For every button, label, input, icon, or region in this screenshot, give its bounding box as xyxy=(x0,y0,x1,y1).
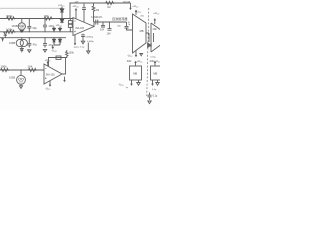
capacitor C8 xyxy=(101,22,105,27)
power pin -Ucc U1 xyxy=(74,35,76,45)
resistor R9 feedback box xyxy=(56,56,61,59)
junction dot feedback xyxy=(83,2,84,3)
capacitor C9 xyxy=(108,22,112,30)
wire B1 top xyxy=(135,62,137,66)
svg-text:MB: MB xyxy=(140,29,144,33)
diode D7 xyxy=(60,7,64,19)
dashed separator xyxy=(147,8,149,96)
lamp V2 double circle xyxy=(16,39,23,46)
diode D4 xyxy=(59,27,62,32)
svg-text:30p: 30p xyxy=(32,26,37,30)
capacitor C1 xyxy=(27,19,31,32)
wire B1 bottom arrow xyxy=(131,80,133,85)
input terminal lower left xyxy=(4,32,7,38)
svg-text:163B: 163B xyxy=(9,76,15,80)
wire B2 bottom arrow xyxy=(152,80,154,85)
power +Ucc U2 xyxy=(135,10,137,14)
resistor R5 feedback xyxy=(92,3,95,22)
input signs U3 xyxy=(45,68,47,79)
junction dot lower xyxy=(20,69,21,70)
svg-text:MB: MB xyxy=(153,71,157,75)
svg-text:163B: 163B xyxy=(12,24,18,28)
svg-text:MB: MB xyxy=(133,71,137,75)
resistor R4 box xyxy=(68,21,72,24)
svg-text:3.3MΩ/1%: 3.3MΩ/1% xyxy=(91,16,103,19)
wire top faint rail xyxy=(0,7,62,9)
resistor R8 10k xyxy=(28,68,37,71)
arrow right section xyxy=(154,19,156,24)
svg-text:163B: 163B xyxy=(9,41,15,45)
svg-text:1M: 1M xyxy=(107,6,110,9)
diode D8 right xyxy=(148,33,154,47)
svg-text:104: 104 xyxy=(107,33,112,36)
svg-text:自激振荡器: 自激振荡器 xyxy=(112,16,127,21)
power -Ucc U2 xyxy=(135,51,137,57)
svg-text:0.0082µ: 0.0082µ xyxy=(85,36,94,38)
svg-text:1M: 1M xyxy=(96,9,99,12)
capacitor C6 feedback xyxy=(82,3,86,22)
regulator box B2 xyxy=(151,66,162,80)
svg-text:0.1µ: 0.1µ xyxy=(153,95,158,98)
power +Ucc U3 xyxy=(47,62,49,66)
capacitor C12 chain xyxy=(87,43,90,54)
svg-text:100k: 100k xyxy=(6,27,13,31)
resistor R10 vertical xyxy=(66,50,69,58)
ground G3 xyxy=(81,41,84,44)
junction dots xyxy=(69,2,70,3)
diode D9 xyxy=(60,19,64,24)
power -Ucc U3 xyxy=(49,81,51,86)
lamp V1 circle xyxy=(18,23,25,30)
op-amp U3 xyxy=(44,64,62,84)
capacitor C7 series xyxy=(96,20,98,25)
svg-text:INA-105: INA-105 xyxy=(75,27,84,30)
wire lower rail xyxy=(0,69,44,71)
svg-text:100k: 100k xyxy=(0,64,7,68)
capacitor C3 xyxy=(43,19,47,32)
svg-text:INA-105: INA-105 xyxy=(46,73,55,76)
svg-text:10k: 10k xyxy=(28,64,33,68)
op-amp U1 xyxy=(73,18,94,36)
resistor R3 30k xyxy=(43,17,53,20)
svg-text:0.1µ: 0.1µ xyxy=(80,47,85,49)
diode D1 xyxy=(20,30,23,32)
svg-text:104: 104 xyxy=(100,29,105,32)
resistor R2 100k xyxy=(6,30,16,33)
capacitor C5 bypass xyxy=(81,34,85,41)
diode D5 xyxy=(53,38,56,45)
svg-text:0.01µ: 0.01µ xyxy=(150,57,156,59)
capacitor C11 bottom right xyxy=(148,93,152,101)
svg-text:1N4148: 1N4148 xyxy=(123,2,131,4)
ground G1 xyxy=(28,50,31,53)
svg-text:100k: 100k xyxy=(69,52,75,55)
converter U4 trapezoid right xyxy=(151,23,161,52)
svg-text:47p: 47p xyxy=(33,43,38,47)
output arrow U3 xyxy=(64,77,66,82)
node join diodes xyxy=(53,45,60,46)
svg-text:30Ω: 30Ω xyxy=(127,60,132,63)
arrow -Ucc mid xyxy=(52,45,54,48)
ground U2 xyxy=(140,54,143,56)
regulator box B1 xyxy=(130,66,142,80)
resistor R1 300k xyxy=(6,17,16,20)
lamp V3 circle xyxy=(17,75,26,84)
trapezoid converter U2 xyxy=(133,14,147,53)
svg-text:0.1µ: 0.1µ xyxy=(152,89,157,91)
diode D2 xyxy=(20,47,23,53)
wire feedback U3 xyxy=(49,58,66,75)
diode D3 xyxy=(53,27,56,32)
ground B2 xyxy=(156,80,159,85)
wire U1 output xyxy=(94,22,127,27)
ground G2 xyxy=(43,49,46,52)
wire feedback top xyxy=(70,3,131,19)
ground V3 xyxy=(19,84,22,88)
ground C11 xyxy=(148,101,151,104)
input terminal ground bus xyxy=(2,38,4,41)
capacitor C10 input right xyxy=(125,22,133,30)
svg-text:30k: 30k xyxy=(44,14,49,18)
svg-text:300k: 300k xyxy=(6,14,13,18)
power pin +Ucc U1 xyxy=(75,9,77,19)
resistor R7 100k xyxy=(0,68,9,71)
svg-text:10k: 10k xyxy=(152,27,157,31)
wire ground bus rail xyxy=(0,37,66,39)
diode D6 xyxy=(59,38,62,45)
wire top input rail xyxy=(0,18,73,20)
input signs U1 xyxy=(74,21,76,32)
capacitor C4 xyxy=(43,38,47,48)
capacitor C2 xyxy=(27,38,31,48)
wire second input rail xyxy=(0,31,73,33)
wire U2 out xyxy=(146,33,149,42)
resistor R6 top xyxy=(105,1,115,4)
ground B1 xyxy=(137,80,140,85)
wire B2 top xyxy=(154,62,156,66)
svg-text:0.068µ: 0.068µ xyxy=(87,41,94,43)
